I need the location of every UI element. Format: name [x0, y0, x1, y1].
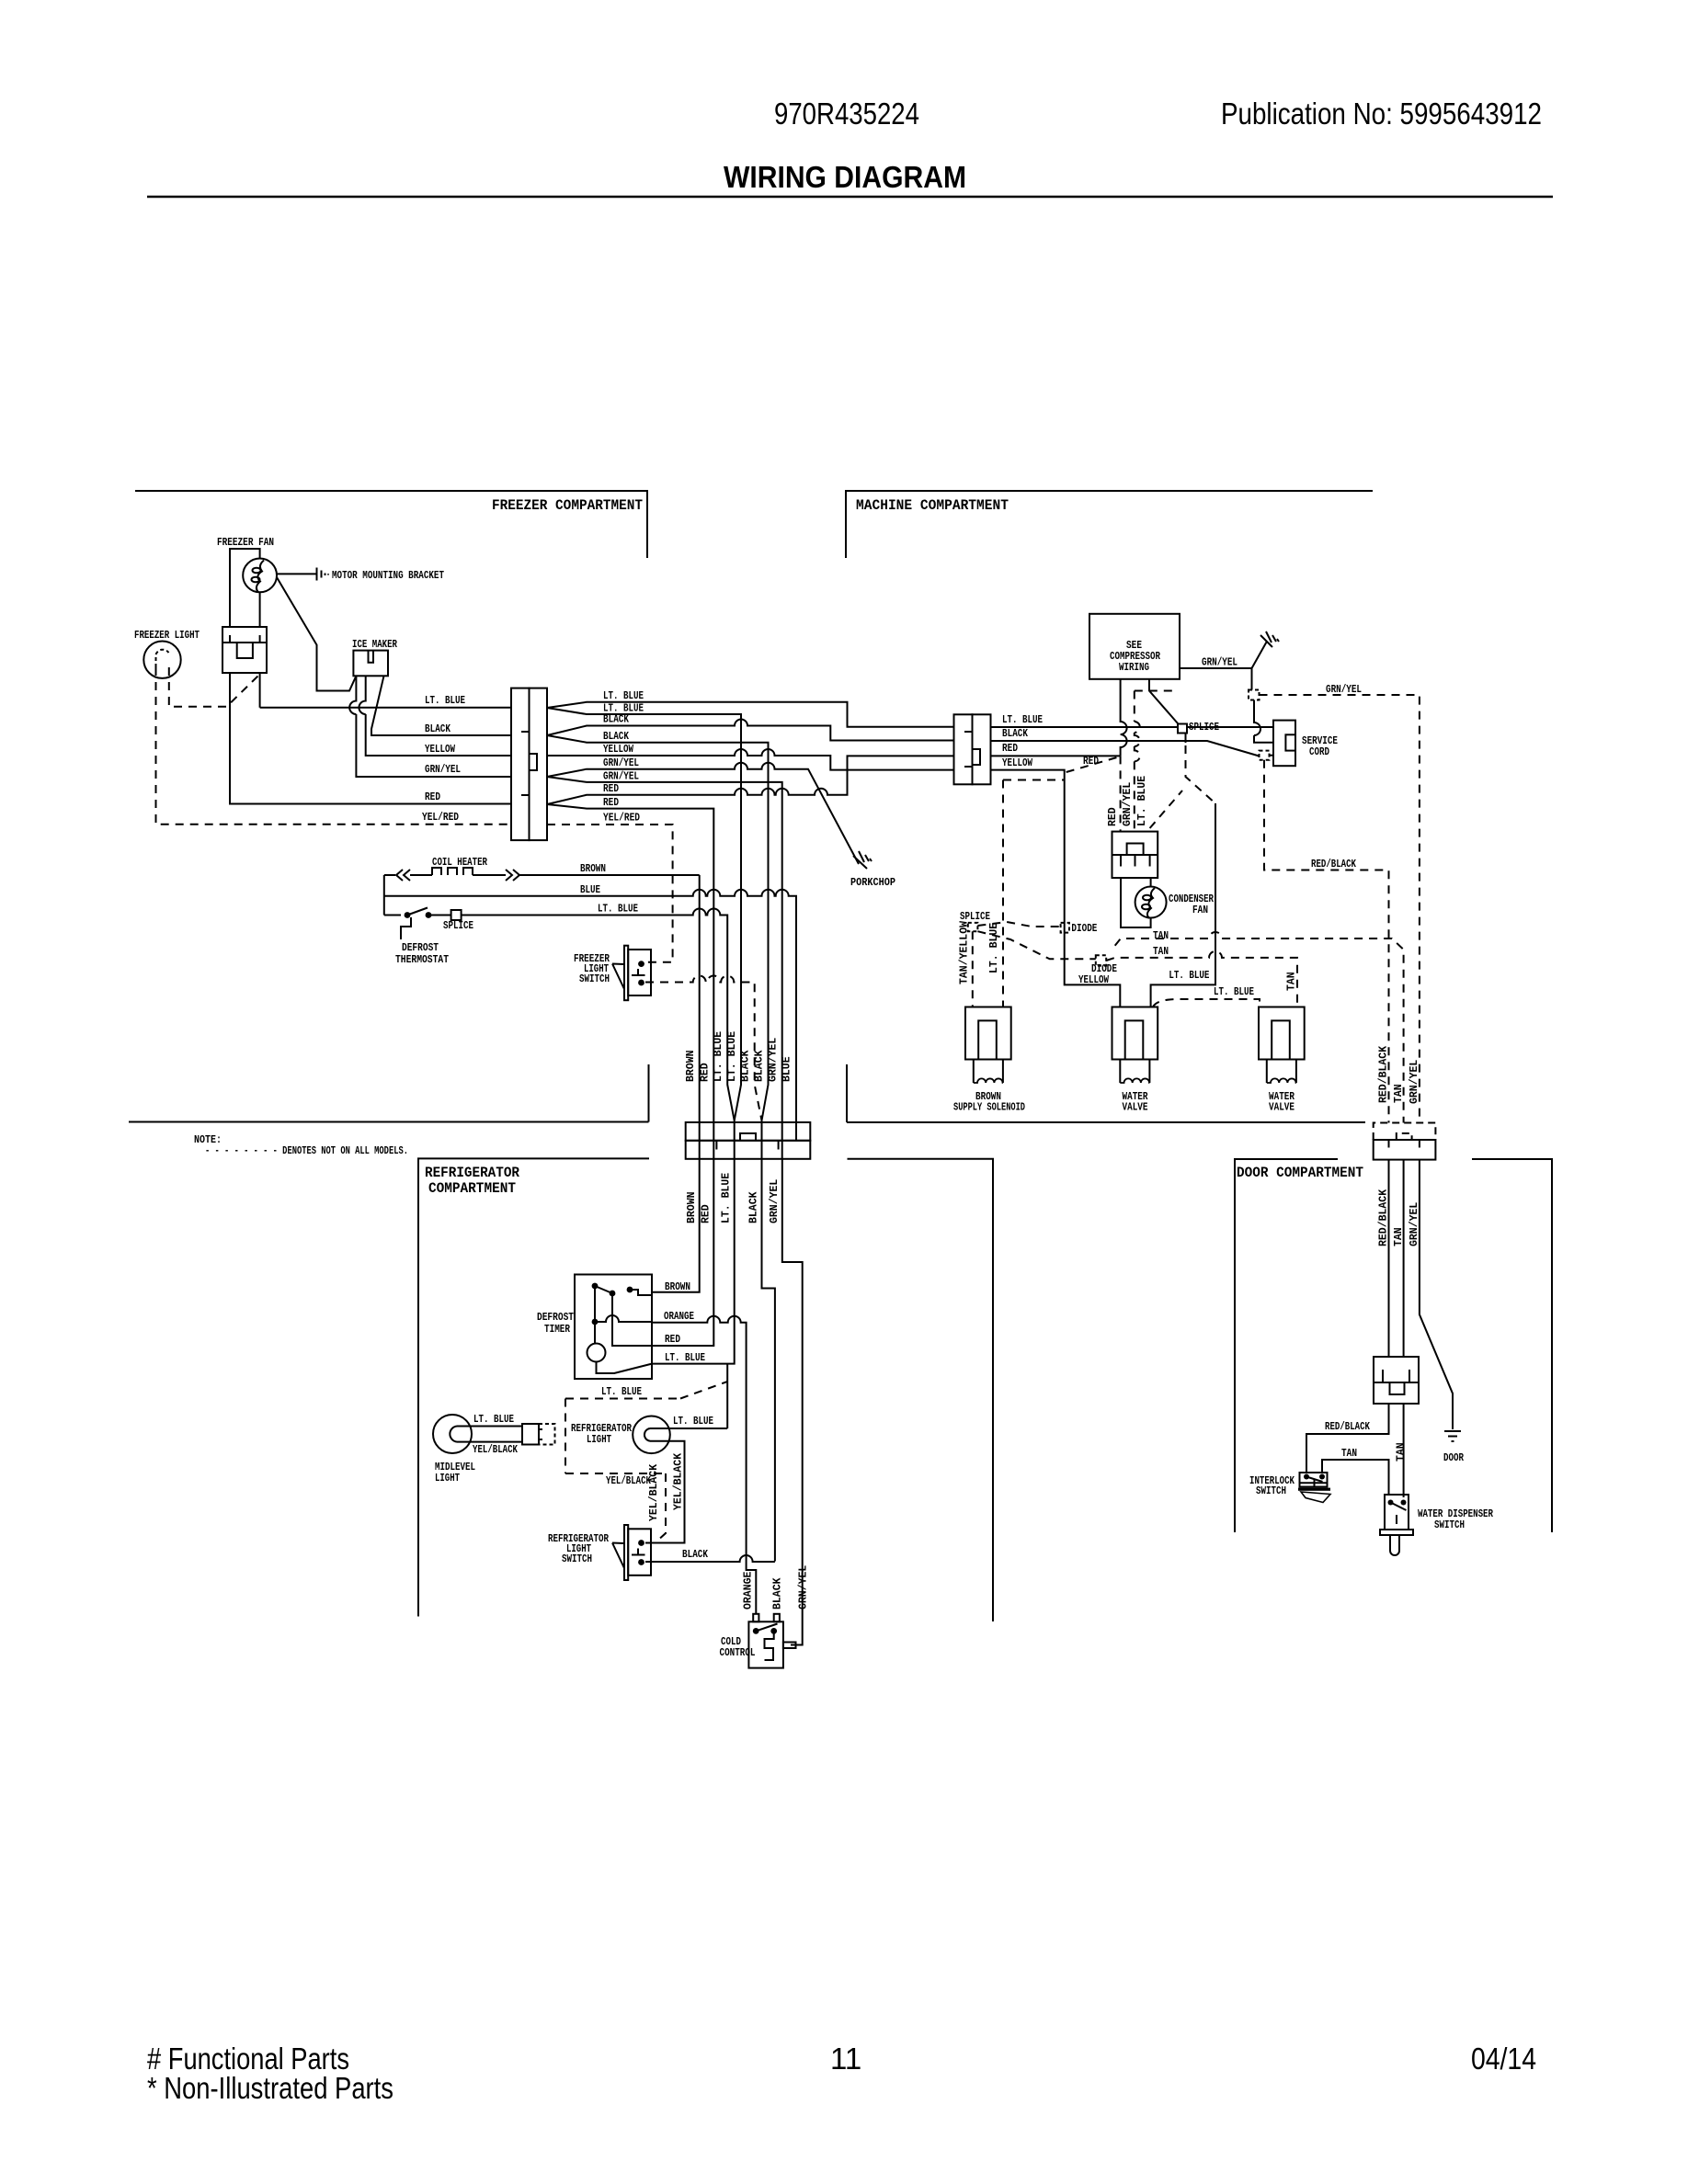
freezer light switch dashed BLACK wire [645, 976, 762, 1120]
svg-text:YEL/RED: YEL/RED [603, 813, 640, 825]
wire GRN/YEL to door ground [1420, 1160, 1453, 1429]
svg-text:LIGHT: LIGHT [587, 1434, 611, 1446]
svg-text:TAN/YELLOW: TAN/YELLOW [959, 921, 971, 984]
svg-text:GRN/YEL: GRN/YEL [1409, 1060, 1420, 1104]
water valve 2 [1259, 1007, 1305, 1084]
door connector solid half [1374, 1140, 1436, 1160]
svg-text:LT. BLUE: LT. BLUE [721, 1173, 733, 1223]
svg-text:BROWN: BROWN [686, 1191, 698, 1223]
svg-text:YELLOW: YELLOW [1002, 757, 1032, 769]
svg-text:TAN: TAN [1396, 1442, 1408, 1462]
wire TAN below door connector [1403, 1160, 1405, 1497]
svg-text:BROWN: BROWN [665, 1281, 690, 1293]
condenser motor coil [1147, 888, 1155, 918]
svg-text:ICE MAKER: ICE MAKER [352, 639, 397, 651]
svg-text:SPLICE: SPLICE [443, 920, 473, 932]
svg-text:FREEZER COMPARTMENT: FREEZER COMPARTMENT [492, 497, 643, 514]
freezer fan motor circle [243, 559, 277, 593]
dashed GRN/YEL jumper under compressor [1135, 690, 1178, 692]
dashed RED diagonal [1066, 757, 1119, 773]
freezer light dashed wire to YEL/RED row [156, 667, 512, 825]
connector 1 [511, 688, 530, 841]
dashed from splice to diode 2 [977, 931, 1095, 959]
svg-text:FREEZER FAN: FREEZER FAN [217, 537, 274, 549]
dashed LT.BLUE diagonal into condenser block [1150, 791, 1182, 828]
freezer light filament dashes [156, 650, 169, 667]
GRN/YEL vertical to splice 2 [1251, 668, 1253, 690]
svg-text:RED: RED [603, 783, 619, 795]
svg-text:YEL/BLACK: YEL/BLACK [648, 1464, 660, 1521]
svg-text:FAN: FAN [1192, 904, 1208, 916]
svg-text:YEL/BLACK: YEL/BLACK [606, 1475, 651, 1487]
svg-text:LT. BLUE: LT. BLUE [598, 904, 638, 916]
svg-text:RED: RED [1083, 756, 1099, 768]
wire BLACK #1 [547, 720, 954, 741]
svg-text:LT. BLUE: LT. BLUE [713, 1031, 724, 1082]
freezer light switch [624, 946, 628, 1001]
dashed TAN row 2 to valve 2 [1106, 951, 1297, 1007]
wire RED/BLACK to interlock switch [1306, 1404, 1389, 1473]
svg-text:LIGHT: LIGHT [435, 1473, 460, 1484]
compressor GRN/YEL wire to chassis ground [1180, 643, 1267, 669]
svg-text:YEL/BLACK: YEL/BLACK [673, 1453, 685, 1510]
svg-text:TIMER: TIMER [544, 1324, 570, 1336]
door mid connector [1374, 1357, 1419, 1382]
svg-text:RED: RED [1107, 807, 1119, 826]
svg-text:BLACK: BLACK [772, 1577, 784, 1610]
svg-text:RED: RED [700, 1063, 712, 1082]
freezer fan motor coil symbol [257, 561, 264, 593]
dashed YEL/BLACK vertical [656, 1473, 666, 1541]
svg-text:BLACK: BLACK [1002, 728, 1028, 740]
svg-text:SUPPLY SOLENOID: SUPPLY SOLENOID [953, 1102, 1025, 1114]
svg-text:LT. BLUE: LT. BLUE [673, 1416, 713, 1428]
dashed LT.BLUE vertical to solenoid [1002, 780, 1004, 1007]
defrost timer motor [587, 1344, 606, 1362]
wire LT.BLUE #2 [547, 708, 741, 1159]
dashed LT.BLUE from splice down to valve1 feed [1185, 734, 1187, 744]
svg-text:RED/BLACK: RED/BLACK [1325, 1421, 1370, 1433]
svg-text:LT. BLUE: LT. BLUE [1214, 986, 1254, 998]
refrigerator light circle [633, 1416, 670, 1454]
wire LT.BLUE below [652, 1159, 735, 1428]
wire TAN from interlock to dispenser switch [1322, 1460, 1389, 1495]
ice maker box [353, 651, 388, 677]
svg-text:YELLOW: YELLOW [425, 744, 455, 756]
svg-text:TAN: TAN [1341, 1448, 1357, 1460]
refrigerator light switch [624, 1525, 628, 1580]
dashed TAN row 1 to door [1115, 932, 1404, 1123]
solid YEL/BLACK vertical from refrigerator light [645, 1441, 685, 1543]
svg-text:GRN/YEL: GRN/YEL [1122, 782, 1134, 826]
title rule [147, 196, 1553, 199]
wire YELLOW [547, 749, 954, 770]
interlock switch [1298, 1473, 1330, 1503]
svg-text:MOTOR MOUNTING BRACKET: MOTOR MOUNTING BRACKET [332, 570, 444, 582]
svg-text:TAN: TAN [1286, 972, 1298, 991]
ice maker pin 2 to YELLOW row [359, 676, 511, 756]
svg-text:RED: RED [1002, 743, 1018, 755]
svg-text:GRN/YEL: GRN/YEL [603, 757, 639, 769]
refrigerator compartment border [418, 1158, 993, 1621]
svg-text:RED: RED [425, 791, 440, 803]
compressor wiring box [1089, 614, 1180, 679]
svg-text:TAN: TAN [1393, 1084, 1405, 1103]
wire LT.BLUE #1 [547, 702, 954, 727]
svg-text:GRN/YEL: GRN/YEL [1326, 684, 1362, 696]
svg-text:YELLOW: YELLOW [1078, 974, 1109, 986]
dashed from splice to diode 1 [977, 922, 1060, 927]
coil heater element with chevrons [384, 868, 700, 881]
rotated wire labels below center connector [686, 1173, 781, 1223]
diode 2 dashed square [1096, 955, 1106, 965]
svg-text:DEFROST: DEFROST [402, 942, 439, 954]
wire RED #2 [547, 804, 713, 1159]
svg-text:SWITCH: SWITCH [1434, 1519, 1465, 1531]
svg-text:RED: RED [603, 797, 619, 809]
svg-text:YELLOW: YELLOW [603, 744, 633, 756]
dashed GRN/YEL vertical to condenser fan [1135, 691, 1140, 832]
wire GRN/YEL #2 [547, 777, 782, 1159]
svg-text:VALVE: VALVE [1269, 1102, 1295, 1114]
svg-text:04/14: 04/14 [1471, 2042, 1536, 2076]
compressor left pin down to RED row [1121, 679, 1127, 756]
svg-text:BLUE: BLUE [580, 884, 600, 896]
svg-text:LT. BLUE: LT. BLUE [473, 1414, 514, 1426]
svg-text:- - - - - - - - DENOTES NOT ON: - - - - - - - - DENOTES NOT ON ALL MODEL… [205, 1145, 408, 1157]
svg-text:Publication No: 5995643912: Publication No: 5995643912 [1221, 97, 1542, 131]
porkchop ground symbol [853, 851, 872, 869]
wire GRN/YEL #1 to porkchop [547, 763, 859, 864]
svg-text:RED: RED [665, 1334, 680, 1346]
wire YELLOW row down to water valve 1 [991, 770, 1121, 1007]
freezer fan wiring U [230, 549, 260, 627]
water valve 1 [1112, 1007, 1158, 1084]
midlevel light circle [433, 1415, 472, 1453]
svg-text:BLACK: BLACK [740, 1050, 752, 1082]
wire GRN/YEL below [782, 1159, 803, 1645]
motor mounting bracket symbol [317, 568, 329, 581]
svg-text:BLACK: BLACK [603, 714, 629, 726]
defrost timer box [575, 1275, 652, 1380]
RED row freezer from fan block [230, 673, 511, 804]
svg-text:LT. BLUE: LT. BLUE [1136, 776, 1148, 826]
svg-text:TAN: TAN [1153, 946, 1169, 958]
rotated wire labels above center connector [685, 1031, 793, 1082]
svg-text:YEL/RED: YEL/RED [422, 812, 459, 824]
machine compartment border [846, 491, 1373, 1122]
svg-text:LT. BLUE: LT. BLUE [726, 1031, 738, 1082]
splice 2 dashed square [1249, 690, 1260, 700]
GRN/YEL below splice2 hop and diagonal to service splice [1254, 700, 1273, 743]
dashed RED/BLACK wire to door [1264, 760, 1389, 1123]
wire RED/BLACK below door connector [1388, 1160, 1390, 1357]
svg-text:BLUE: BLUE [781, 1056, 793, 1082]
svg-text:BLACK: BLACK [603, 731, 629, 743]
svg-text:11: 11 [830, 2042, 861, 2076]
svg-text:GRN/YEL: GRN/YEL [603, 771, 639, 783]
svg-text:VALVE: VALVE [1123, 1102, 1148, 1114]
svg-text:SWITCH: SWITCH [562, 1553, 592, 1565]
splice on LT.BLUE row [451, 910, 462, 920]
cold control [753, 1614, 758, 1622]
dashed LT.BLUE from valve1 to valve2 [1153, 999, 1260, 1007]
svg-text:WIRING DIAGRAM: WIRING DIAGRAM [724, 160, 966, 194]
wire BLACK from light switch [645, 1555, 775, 1562]
splice square on LT.BLUE row [1178, 724, 1187, 734]
svg-text:GRN/YEL: GRN/YEL [798, 1565, 810, 1610]
svg-text:SWITCH: SWITCH [1256, 1485, 1286, 1497]
midlevel light connector [522, 1424, 539, 1445]
wire BLACK row to service splice [991, 741, 1260, 756]
svg-text:CORD: CORD [1309, 746, 1329, 758]
chassis ground hatch [1260, 631, 1279, 647]
svg-text:MACHINE COMPARTMENT: MACHINE COMPARTMENT [856, 497, 1009, 514]
motor mounting bracket wire [277, 573, 317, 574]
condenser fan block [1112, 832, 1158, 878]
wire BLUE row [384, 890, 796, 1141]
svg-text:* Non-Illustrated Parts: * Non-Illustrated Parts [147, 2071, 393, 2105]
center connector upper half [686, 1122, 811, 1141]
service cord box [1273, 721, 1295, 767]
wire BLACK #2 [547, 735, 769, 1159]
wire BROWN vertical to defrost timer [652, 875, 700, 1292]
svg-text:BLACK: BLACK [754, 1050, 766, 1082]
ice maker pin 3 diagonal to BLACK row [371, 676, 511, 735]
dashed GRN/YEL long wire to door [1260, 695, 1420, 1123]
dashed optional light box left and bottom [565, 1399, 666, 1474]
dashed RED vertical to condenser fan [1120, 756, 1122, 831]
wire LT.BLUE row defrost thermostat [384, 909, 735, 1120]
center connector lower half [686, 1141, 811, 1159]
freezer fan connector block [222, 627, 267, 673]
defrost timer contacts [592, 1283, 599, 1290]
svg-text:REFRIGERATOR: REFRIGERATOR [425, 1165, 520, 1181]
svg-text:BROWN: BROWN [580, 863, 606, 875]
LT BLUE row freezer [260, 673, 511, 708]
svg-text:DIODE: DIODE [1071, 923, 1097, 935]
svg-text:TAN: TAN [1153, 930, 1169, 942]
svg-text:LT. BLUE: LT. BLUE [1169, 970, 1209, 982]
wire YEL/RED dashed [547, 825, 673, 962]
svg-text:CONTROL: CONTROL [720, 1647, 756, 1659]
svg-text:THERMOSTAT: THERMOSTAT [395, 954, 449, 966]
brown supply solenoid [965, 1007, 1011, 1084]
freezer light dashed wire to fan block [169, 667, 258, 707]
condenser fan motor circle [1135, 887, 1167, 918]
wire BLACK below [762, 1159, 775, 1562]
diode 1 dashed square [1061, 923, 1069, 933]
door connector dashed half [1374, 1123, 1436, 1141]
door compartment border [1235, 1159, 1552, 1532]
svg-text:GRN/YEL: GRN/YEL [769, 1179, 781, 1223]
svg-text:ORANGE: ORANGE [743, 1571, 755, 1610]
svg-text:GRN/YEL: GRN/YEL [768, 1038, 780, 1082]
solid LT.BLUE vertical to valve 1 [1151, 803, 1215, 1007]
svg-text:SWITCH: SWITCH [579, 973, 610, 985]
door ground symbol [1444, 1431, 1461, 1441]
wire RED below [652, 1159, 713, 1346]
svg-text:BROWN: BROWN [685, 1050, 697, 1082]
svg-text:LT. BLUE: LT. BLUE [988, 923, 1000, 973]
midlevel light wires [472, 1427, 522, 1442]
svg-text:LT. BLUE: LT. BLUE [665, 1352, 705, 1364]
dashed TAN/YELLOW vertical to solenoid [972, 931, 974, 1007]
svg-text:COMPARTMENT: COMPARTMENT [428, 1180, 516, 1197]
compressor right pin diagonal to splice [1149, 679, 1178, 723]
refrigerator light LT.BLUE wire [650, 1428, 727, 1429]
wire RED row [991, 755, 1121, 756]
svg-text:DOOR: DOOR [1443, 1452, 1464, 1464]
ice maker pin 1 to GRN/YEL row [349, 676, 511, 777]
svg-text:WIRING: WIRING [1119, 662, 1149, 674]
svg-text:RED: RED [701, 1204, 713, 1223]
wire ORANGE from timer [652, 1316, 756, 1614]
svg-text:LT. BLUE: LT. BLUE [601, 1386, 642, 1398]
coil heater left vertical [383, 875, 385, 916]
svg-text:YEL/BLACK: YEL/BLACK [473, 1444, 518, 1456]
svg-text:ORANGE: ORANGE [664, 1311, 694, 1323]
freezer compartment border [129, 491, 649, 1122]
wire from motor to ice maker pin1 [277, 577, 356, 691]
svg-text:RED/BLACK: RED/BLACK [1378, 1046, 1390, 1103]
defrost thermostat contacts [405, 912, 411, 918]
svg-text:BLACK: BLACK [425, 723, 451, 735]
svg-text:LT. BLUE: LT. BLUE [1002, 714, 1043, 726]
freezer light circle [143, 642, 180, 678]
dashed YELLOW jumper [1003, 779, 1065, 781]
dashed optional light box LT.BLUE top [565, 1382, 727, 1399]
water dispenser switch [1385, 1495, 1409, 1530]
wire LT.BLUE row to service cord [991, 726, 1274, 728]
svg-text:970R435224: 970R435224 [774, 97, 919, 131]
splice 3 dashed square at service cord [1260, 751, 1270, 760]
svg-text:BLACK: BLACK [682, 1549, 708, 1561]
svg-text:FREEZER LIGHT: FREEZER LIGHT [134, 630, 200, 642]
svg-text:PORKCHOP: PORKCHOP [850, 877, 895, 889]
svg-text:GRN/YEL: GRN/YEL [1202, 657, 1237, 669]
wire RED #1 [547, 756, 954, 804]
svg-text:LT. BLUE: LT. BLUE [603, 690, 644, 702]
svg-text:DIODE: DIODE [1091, 963, 1117, 975]
svg-text:DOOR COMPARTMENT: DOOR COMPARTMENT [1237, 1165, 1363, 1181]
svg-text:RED/BLACK: RED/BLACK [1311, 859, 1356, 870]
svg-text:LT. BLUE: LT. BLUE [425, 695, 465, 707]
svg-text:GRN/YEL: GRN/YEL [425, 764, 461, 776]
svg-text:BLACK: BLACK [748, 1191, 760, 1223]
svg-text:DEFROST: DEFROST [537, 1312, 574, 1324]
